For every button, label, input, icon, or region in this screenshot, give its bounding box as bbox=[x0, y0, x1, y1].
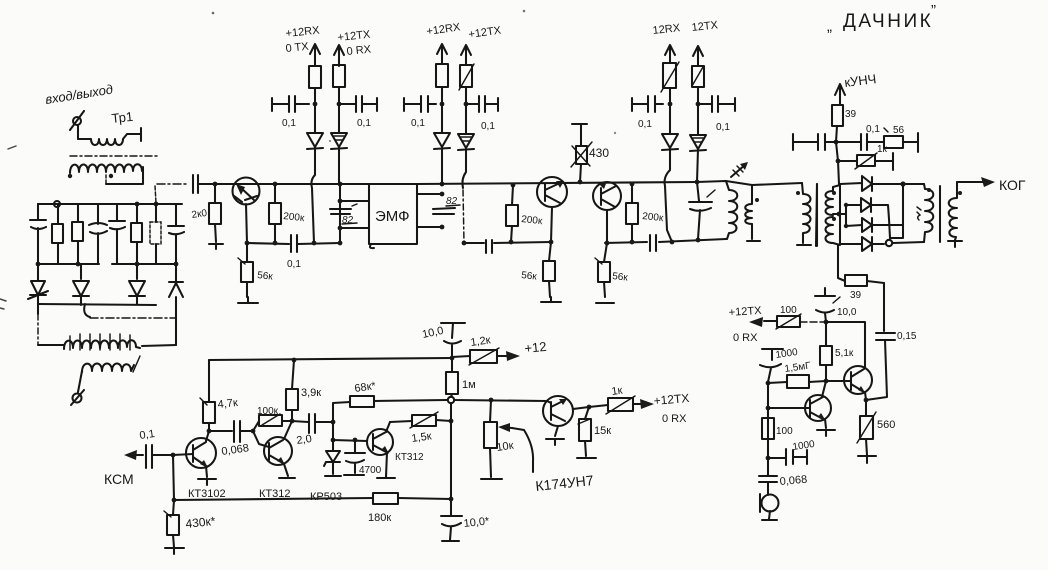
diode D-d (up) bbox=[169, 264, 183, 318]
svg-text:56: 56 bbox=[893, 125, 905, 136]
svg-text:0,1: 0,1 bbox=[638, 119, 652, 130]
kUNCH arrow bbox=[835, 84, 845, 104]
svg-text:200к: 200к bbox=[642, 211, 665, 224]
phase dot bbox=[958, 191, 962, 195]
node bbox=[549, 240, 554, 245]
resistor 180k bbox=[368, 493, 398, 524]
node bbox=[172, 498, 177, 503]
resistor 1m bbox=[446, 358, 476, 397]
resistor 5,1k bbox=[820, 322, 854, 381]
rail D resistor (slashed) bbox=[459, 64, 474, 104]
capacitor 10,0 star bbox=[441, 499, 491, 541]
svg-text:0,1: 0,1 bbox=[282, 118, 296, 129]
wire dashed down to filter bbox=[155, 186, 156, 203]
node bbox=[489, 398, 494, 403]
node bbox=[509, 240, 514, 245]
Tr2 primary winding bbox=[917, 184, 933, 242]
rail F resistor bbox=[692, 66, 704, 104]
output terminal bbox=[71, 371, 84, 405]
node bbox=[135, 202, 140, 207]
rail B resistor bbox=[333, 65, 345, 104]
capacitor 1000 upper bbox=[760, 347, 799, 382]
rail B diode bbox=[331, 104, 347, 149]
rail D arrow bbox=[461, 45, 471, 65]
node bbox=[36, 262, 41, 267]
node bbox=[578, 180, 583, 185]
svg-text:+12ТХ: +12ТХ bbox=[728, 305, 762, 319]
node bbox=[696, 102, 701, 107]
node bbox=[154, 202, 159, 207]
node bbox=[292, 358, 297, 363]
svg-text:0,1: 0,1 bbox=[716, 122, 730, 133]
svg-text:”: ” bbox=[931, 2, 936, 19]
resistor 39 lower bbox=[845, 275, 884, 301]
svg-text:1к: 1к bbox=[877, 144, 888, 155]
scan speck bbox=[212, 12, 215, 15]
phase dot bbox=[755, 198, 759, 202]
capacitor 10,0 top bbox=[421, 323, 465, 358]
resistor 100 lower bbox=[762, 408, 793, 439]
node bbox=[171, 453, 176, 458]
wire EMF left taps bbox=[340, 184, 369, 243]
wire dash-dot to input cap bbox=[157, 183, 189, 185]
node bbox=[766, 406, 771, 411]
svg-text:39: 39 bbox=[850, 290, 862, 301]
node bbox=[766, 456, 771, 461]
ring diode D2 bbox=[846, 198, 890, 238]
wire main audio line bbox=[454, 400, 546, 401]
scan mark left edge lower bbox=[0, 299, 6, 309]
filter resistor R-d (dashed) bbox=[150, 204, 161, 264]
rail E arrow bbox=[665, 45, 675, 63]
node bbox=[824, 320, 829, 325]
junction open circle bbox=[54, 201, 60, 207]
rail C wire bbox=[441, 147, 443, 184]
svg-text:Тр1: Тр1 bbox=[111, 109, 134, 126]
node bbox=[273, 241, 278, 246]
node bbox=[450, 356, 455, 361]
svg-text:1к: 1к bbox=[611, 385, 624, 398]
node bbox=[836, 159, 841, 164]
rail F wire bbox=[697, 149, 698, 182]
node bbox=[251, 429, 256, 434]
node bbox=[338, 241, 343, 246]
node bbox=[834, 140, 839, 145]
resistor 200k stage3 bbox=[626, 184, 664, 242]
filter capacitor C-b bbox=[89, 204, 107, 264]
svg-text:39: 39 bbox=[845, 109, 857, 120]
transformer Ta right winding bbox=[797, 183, 811, 245]
rail E resistor (slashed) bbox=[661, 62, 679, 104]
transformer Tr1 primary winding bbox=[78, 128, 141, 145]
ring modulator left winding bbox=[826, 187, 834, 243]
node bbox=[695, 180, 700, 185]
svg-text:15к: 15к bbox=[594, 425, 611, 437]
wire dash-dot lower bbox=[90, 317, 176, 319]
svg-text:200к: 200к bbox=[283, 211, 306, 224]
filter top bus bbox=[38, 203, 182, 205]
capacitor on bus stage2 bbox=[486, 240, 492, 253]
node bbox=[668, 102, 673, 107]
filter lower bus bbox=[38, 263, 176, 265]
node bbox=[766, 381, 771, 386]
resistor 100 feed bbox=[776, 305, 801, 329]
resistor 100k bbox=[253, 406, 292, 431]
node bbox=[135, 262, 140, 267]
core bar bbox=[816, 184, 818, 246]
svg-text:0 TX: 0 TX bbox=[285, 41, 310, 55]
wire kUNCH down bbox=[836, 142, 839, 184]
svg-text:0 RX: 0 RX bbox=[662, 413, 687, 425]
node bbox=[670, 240, 675, 245]
resistor 1,5k (slashed) bbox=[390, 412, 451, 445]
input coupling capacitor bbox=[193, 175, 215, 193]
wire ring bottom down bbox=[838, 245, 845, 281]
rail C resistor bbox=[436, 64, 448, 104]
transistor KT3102 bbox=[173, 431, 226, 500]
phase dot bbox=[109, 174, 113, 178]
svg-text:1м: 1м bbox=[462, 379, 476, 391]
emitter bus stage1 bbox=[247, 243, 340, 244]
resistor 39 bbox=[832, 105, 857, 142]
resistor 56k stage3 bbox=[595, 243, 629, 303]
svg-text:10,0: 10,0 bbox=[837, 307, 857, 318]
ring diode D1 bbox=[840, 176, 924, 191]
resistor 68k bbox=[333, 380, 447, 422]
capacitor 1000 lower bbox=[768, 439, 816, 465]
node bbox=[337, 102, 342, 107]
rail F capacitor 0,1 bbox=[698, 96, 735, 133]
node bbox=[174, 262, 179, 267]
node bbox=[864, 398, 869, 403]
diode D-c bbox=[129, 264, 145, 304]
wire left vertical bbox=[767, 383, 769, 458]
node bbox=[331, 420, 336, 425]
svg-text:200к: 200к bbox=[521, 214, 544, 227]
svg-text:„: „ bbox=[827, 18, 832, 35]
rail B wire bbox=[338, 147, 340, 184]
rail A capacitor 0,1 bbox=[272, 96, 309, 129]
node bbox=[440, 192, 445, 197]
transistor Qb bbox=[826, 366, 872, 400]
transistor KT312 second bbox=[367, 422, 424, 478]
tank top wire bbox=[697, 181, 802, 185]
wire to zener and base bbox=[333, 422, 367, 451]
svg-text:0,1: 0,1 bbox=[139, 428, 156, 442]
svg-text:3,9к: 3,9к bbox=[301, 387, 321, 399]
wire lower join bbox=[38, 304, 156, 305]
node bbox=[449, 419, 454, 424]
svg-text:56к: 56к bbox=[257, 270, 274, 283]
scan speck bbox=[329, 140, 331, 142]
scan speck bbox=[523, 10, 526, 13]
rail D capacitor 0,1 bbox=[466, 96, 498, 132]
inductor L2 bbox=[82, 356, 140, 372]
transistor Q3 bbox=[593, 181, 621, 243]
rail A diode bbox=[307, 104, 323, 149]
resistor 200k stage1 bbox=[269, 184, 305, 243]
rail C arrow bbox=[437, 44, 447, 64]
capacitor 82 output bbox=[433, 196, 460, 214]
svg-text:КОГ: КОГ bbox=[999, 177, 1026, 193]
trimmer resistor 430 bbox=[571, 124, 609, 182]
wire node to Qb collector line bbox=[826, 322, 865, 367]
resistor 1k (slashed) output bbox=[589, 385, 654, 414]
wire hook to dash bus bbox=[84, 304, 90, 317]
node bbox=[837, 212, 842, 217]
node bbox=[824, 379, 829, 384]
svg-text:КТ312: КТ312 bbox=[395, 452, 424, 463]
node bbox=[440, 182, 445, 187]
node bbox=[76, 262, 81, 267]
node bbox=[290, 419, 295, 424]
svg-text:0,068: 0,068 bbox=[779, 474, 807, 488]
phase dot bbox=[927, 188, 931, 192]
node bbox=[331, 438, 336, 443]
rail D wire with hop to emitter bus bbox=[462, 148, 466, 188]
capacitor 0,15 bbox=[866, 331, 917, 400]
rail E diode bbox=[662, 104, 678, 150]
node bbox=[213, 182, 218, 187]
node bbox=[338, 199, 343, 204]
capacitor 82 input bbox=[330, 204, 357, 226]
left core bar bbox=[816, 184, 817, 246]
svg-text:56к: 56к bbox=[521, 270, 538, 283]
resistor 15k bbox=[577, 407, 611, 458]
capacitor 4700 bbox=[344, 440, 382, 476]
transistor Q2 bbox=[537, 177, 567, 242]
node bbox=[353, 438, 358, 443]
svg-text:5,1к: 5,1к bbox=[835, 348, 854, 359]
wire secondary to signal line bbox=[106, 167, 143, 184]
node bbox=[245, 241, 250, 246]
transistor Q1 bbox=[233, 178, 260, 244]
transformer Tr1 core (dash-dot) bbox=[70, 155, 157, 157]
wire left vertical bbox=[37, 304, 39, 314]
tank coil bbox=[726, 181, 737, 239]
diode D-b bbox=[73, 264, 89, 305]
zener KP503 gate bbox=[324, 451, 341, 476]
wire KSM node down bbox=[173, 455, 174, 500]
ring diode D4 bbox=[840, 237, 924, 251]
phase dot bbox=[832, 217, 836, 221]
svg-text:0,1: 0,1 bbox=[357, 118, 371, 129]
resistor 3,9k bbox=[286, 360, 321, 421]
wire right vertical to 0,15 bbox=[883, 283, 885, 331]
node bbox=[696, 238, 701, 243]
rail A arrow bbox=[310, 44, 320, 66]
resistor 56k stage1 bbox=[238, 243, 274, 303]
node bbox=[313, 102, 318, 107]
wire main line stage1 bbox=[215, 183, 369, 185]
node bbox=[844, 203, 848, 207]
tank trimmer capacitor bbox=[689, 182, 715, 239]
wire right vertical bbox=[175, 318, 177, 345]
title DACHNIK bbox=[827, 2, 936, 35]
inductor 1,5mG bbox=[768, 360, 826, 388]
node bbox=[605, 241, 610, 246]
svg-text:2,0: 2,0 bbox=[296, 433, 313, 447]
rail B capacitor 0,1 bbox=[339, 96, 377, 129]
rail E wire with hop bbox=[665, 148, 672, 242]
audio bottom bus bbox=[174, 498, 451, 500]
resistor 560 (slashed) bbox=[857, 400, 895, 463]
filter resistor R-c bbox=[131, 204, 142, 264]
capacitor 10,0 (electrolytic) bbox=[815, 288, 857, 322]
trimmer arrow bbox=[731, 162, 748, 177]
svg-text:430: 430 bbox=[589, 146, 609, 160]
node bbox=[462, 241, 467, 246]
node bbox=[630, 240, 635, 245]
resistor 4,7k bbox=[200, 360, 238, 431]
audio top bus bbox=[209, 358, 452, 360]
node bbox=[338, 182, 343, 187]
capacitor 0,1 KSM bbox=[146, 445, 173, 468]
KOG output arrow bbox=[957, 177, 1026, 193]
resistor 200k stage2 bbox=[506, 185, 543, 242]
svg-text:560: 560 bbox=[877, 419, 895, 431]
svg-text:4,7к: 4,7к bbox=[217, 397, 238, 411]
capacitor left of node bbox=[793, 134, 836, 150]
svg-text:100к: 100к bbox=[257, 406, 279, 417]
phase dot bbox=[832, 191, 836, 195]
wire dash feed bbox=[800, 321, 826, 323]
node bbox=[511, 183, 516, 188]
filter resistor R-a bbox=[52, 204, 63, 264]
node bbox=[273, 182, 278, 187]
resistor 56k stage2 bbox=[521, 242, 561, 302]
left arrow to +12TX bbox=[749, 317, 777, 327]
svg-text:4700: 4700 bbox=[359, 465, 382, 476]
svg-text:0 RХ: 0 RХ bbox=[733, 332, 758, 344]
phase dot bbox=[796, 191, 800, 195]
junction open circle bbox=[448, 397, 454, 403]
resistor 1k (slashed) bbox=[838, 144, 893, 170]
node bbox=[900, 181, 905, 186]
rail D diode bbox=[458, 104, 474, 150]
rail E capacitor 0,1 bbox=[632, 96, 663, 130]
node bbox=[312, 241, 317, 246]
node bbox=[338, 226, 343, 231]
ring left taps bbox=[833, 185, 846, 245]
rail C diode bbox=[434, 104, 450, 149]
scan speck bbox=[614, 132, 616, 134]
capacitor 2,0 bbox=[292, 414, 333, 447]
node bbox=[587, 405, 592, 410]
capacitor 0,068 mic bbox=[759, 458, 808, 495]
svg-text:КТ3102: КТ3102 bbox=[188, 488, 226, 500]
resistor 56 bbox=[884, 125, 918, 152]
Tr2 core bars bbox=[939, 186, 941, 242]
emitter bus stage3 bbox=[605, 239, 726, 243]
wire dashed tap bbox=[105, 175, 107, 185]
inductor L1 (hatched) bbox=[38, 334, 176, 350]
rail A resistor bbox=[309, 66, 321, 104]
scan mark left edge bbox=[8, 146, 16, 149]
capacitor 0,1 right bbox=[836, 124, 884, 150]
node bbox=[464, 102, 469, 107]
svg-text:ДАЧНИК: ДАЧНИК bbox=[843, 11, 933, 32]
svg-text:0,1: 0,1 bbox=[411, 118, 425, 129]
capacitor 0,068 interstage bbox=[209, 421, 253, 458]
Tr2 secondary winding bbox=[948, 182, 962, 247]
rail C capacitor 0,1 bbox=[404, 96, 436, 129]
resistor 1,2k bbox=[452, 334, 547, 365]
filter capacitor C-d bbox=[168, 204, 184, 264]
node bbox=[440, 102, 445, 107]
filter capacitor C-c bbox=[109, 204, 125, 264]
filter resistor R-b bbox=[72, 204, 83, 264]
ring diode D3 bbox=[846, 184, 903, 238]
svg-text:56к: 56к bbox=[612, 271, 629, 284]
KSM arrow bbox=[124, 450, 143, 460]
phase dot bbox=[68, 174, 72, 178]
resistor 430k bbox=[164, 500, 216, 554]
transistor Qa bbox=[768, 381, 835, 436]
input terminal bbox=[70, 111, 84, 139]
svg-text:10к: 10к bbox=[496, 440, 515, 454]
varicap D-a bbox=[28, 264, 48, 304]
transistor driver bbox=[543, 396, 589, 445]
svg-text:0,15: 0,15 bbox=[897, 331, 917, 342]
node bbox=[630, 182, 635, 187]
svg-text:КСМ: КСМ bbox=[104, 471, 134, 487]
EMF filter box bbox=[369, 184, 417, 248]
svg-text:2к0: 2к0 bbox=[191, 208, 208, 221]
transformer Tr1 secondary winding bbox=[70, 164, 143, 173]
rail B arrow bbox=[334, 45, 344, 66]
rail F diode bbox=[690, 104, 706, 151]
svg-text:180к: 180к bbox=[368, 512, 391, 524]
resistor 2k0 bbox=[191, 184, 223, 249]
capacitor 0,1 on bus bbox=[287, 235, 301, 270]
svg-text:+12: +12 bbox=[524, 339, 548, 356]
transistor KT312 first bbox=[253, 421, 295, 500]
svg-text:0,1: 0,1 bbox=[287, 259, 301, 270]
node bbox=[449, 497, 454, 502]
svg-text:100: 100 bbox=[780, 305, 797, 316]
potentiometer 10k bbox=[481, 400, 533, 479]
filter capacitor C-a bbox=[30, 204, 46, 264]
rail F arrow bbox=[693, 46, 703, 66]
wire vertical 1m column bbox=[450, 403, 452, 499]
transformer Ta left winding bbox=[745, 185, 760, 241]
node bbox=[207, 429, 212, 434]
rail A wire with hop to emitter bus bbox=[311, 147, 315, 243]
svg-text:0,1: 0,1 bbox=[481, 121, 495, 132]
capacitor on bus stage3 bbox=[650, 235, 656, 251]
svg-text:КР503: КР503 bbox=[310, 491, 342, 503]
svg-text:100: 100 bbox=[776, 426, 793, 437]
node bbox=[440, 225, 445, 230]
node bbox=[844, 224, 848, 228]
wire EMF right taps bbox=[417, 194, 442, 227]
svg-text:ЭМФ: ЭМФ bbox=[375, 208, 410, 225]
emitter bus stage2 bbox=[464, 242, 551, 243]
wire main line stage2 bbox=[417, 182, 697, 184]
microphone bbox=[760, 494, 779, 520]
